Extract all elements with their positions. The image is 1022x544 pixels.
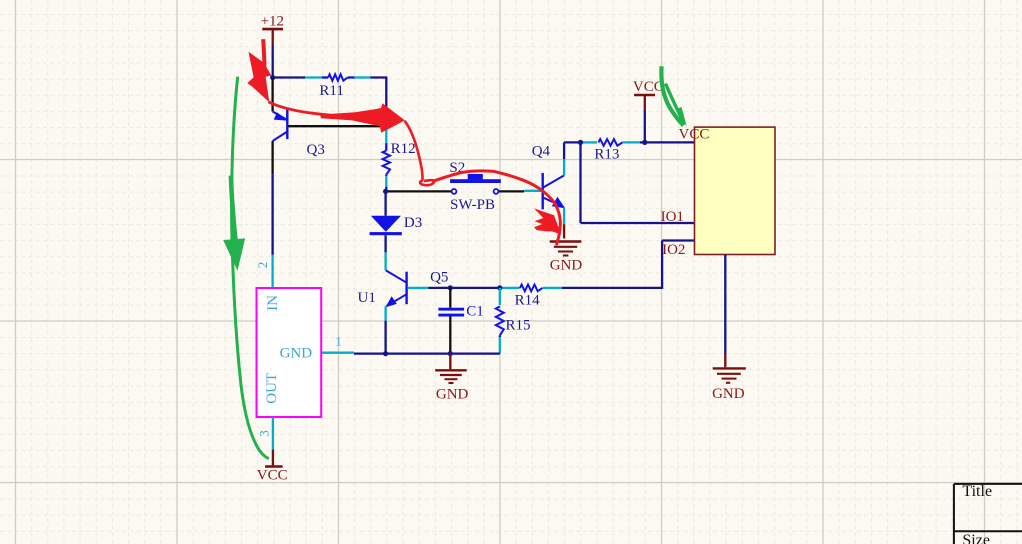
svg-text:3: 3	[257, 430, 272, 437]
svg-text:VCC: VCC	[257, 468, 288, 484]
svg-text:U1: U1	[358, 290, 376, 306]
svg-text:GND: GND	[550, 258, 583, 274]
svg-text:SW-PB: SW-PB	[450, 197, 495, 213]
svg-text:Q5: Q5	[430, 270, 448, 286]
svg-text:R14: R14	[515, 293, 541, 309]
svg-text:Title: Title	[962, 483, 992, 500]
svg-text:R12: R12	[391, 141, 416, 157]
svg-text:GND: GND	[436, 386, 469, 402]
svg-text:C1: C1	[466, 304, 484, 320]
svg-text:R15: R15	[506, 318, 531, 334]
svg-text:Q4: Q4	[532, 143, 551, 159]
svg-text:Size: Size	[962, 532, 990, 544]
svg-text:D3: D3	[404, 215, 422, 231]
svg-text:VCC: VCC	[633, 79, 664, 95]
svg-text:IO1: IO1	[661, 209, 684, 225]
svg-text:1: 1	[335, 333, 342, 348]
svg-text:+12: +12	[261, 13, 284, 29]
svg-text:R13: R13	[594, 147, 619, 163]
svg-text:GND: GND	[712, 386, 745, 402]
svg-text:R11: R11	[319, 83, 343, 99]
svg-text:Q3: Q3	[307, 142, 325, 158]
svg-text:IO2: IO2	[662, 242, 685, 258]
svg-text:IN: IN	[265, 295, 281, 311]
svg-text:VCC: VCC	[679, 126, 710, 142]
svg-text:GND: GND	[280, 345, 313, 361]
svg-text:OUT: OUT	[264, 373, 280, 404]
svg-text:2: 2	[255, 262, 270, 269]
